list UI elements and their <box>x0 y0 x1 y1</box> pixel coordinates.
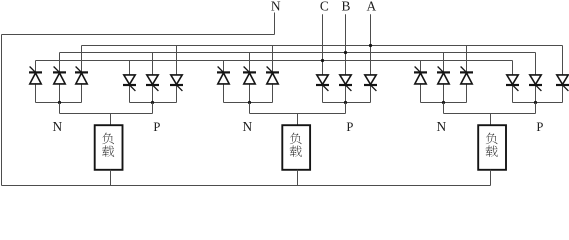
thyristor VT16 symbol <box>506 75 519 91</box>
wire load 3 junction run (N group to P group) <box>444 113 536 115</box>
junction dot group 1 output node <box>58 101 61 104</box>
wire group 2 common output <box>130 102 177 104</box>
load 1 box (负载) <box>95 125 123 170</box>
wire phase-B bus <box>60 52 536 54</box>
wire bus tap for VT13 <box>420 61 422 73</box>
thyristor VT17 (conducting down) cathode wire <box>535 85 537 103</box>
wire load 2 junction run (N group to P group) <box>250 113 346 115</box>
wire bus tap for VT8 <box>249 53 251 73</box>
wire group 1 output drop <box>59 103 61 114</box>
wire bus tap for VT9 <box>272 46 274 73</box>
wire group 4 output drop <box>345 103 347 114</box>
wire N terminal drop <box>274 13 276 35</box>
thyristor VT15 symbol <box>460 67 473 84</box>
wire group 4 common output <box>323 102 371 104</box>
wire bus tap for VT16 <box>512 61 514 75</box>
thyristor VT10 symbol <box>316 75 329 91</box>
thyristor VT3 (conducting up) anode wire <box>81 83 83 102</box>
thyristor VT8 symbol <box>243 67 256 84</box>
wire bus tap for VT15 <box>466 46 468 73</box>
wire group 5 output drop <box>443 103 445 114</box>
thyristor VT2 (conducting up) anode wire <box>59 83 61 102</box>
svg-text:N: N <box>242 119 252 134</box>
thyristor VT18 (conducting down) cathode wire <box>562 85 564 103</box>
thyristor VT1 (conducting up) anode wire <box>35 83 37 102</box>
thyristor VT6 symbol <box>170 75 183 91</box>
thyristor VT6 (conducting down) cathode wire <box>176 85 178 103</box>
thyristor VT11 symbol <box>339 75 352 91</box>
svg-text:P: P <box>153 120 160 134</box>
thyristor VT11 (conducting down) cathode wire <box>345 85 347 103</box>
load 2 text 载 <box>290 146 302 157</box>
thyristor VT10 (conducting down) cathode wire <box>322 85 324 103</box>
thyristor VT12 symbol <box>364 75 377 91</box>
wire load 2 top lead <box>297 114 299 126</box>
wire load 3 bottom lead <box>490 170 492 186</box>
svg-text:N: N <box>271 0 281 13</box>
wire bus tap for VT6 <box>176 46 178 75</box>
wire bus tap for VT14 <box>443 53 445 73</box>
thyristor VT14 (conducting up) anode wire <box>443 83 445 102</box>
wire load 1 bottom lead <box>110 170 112 186</box>
junction dot group 2 output node <box>151 101 154 104</box>
wire group 6 common output <box>513 102 563 104</box>
svg-text:B: B <box>342 0 351 13</box>
load 3 box (负载) <box>478 125 506 170</box>
svg-text:C: C <box>320 0 329 13</box>
junction dot C on phase-C bus <box>321 59 324 62</box>
thyristor VT8 (conducting up) anode wire <box>249 83 251 102</box>
wire group 3 output drop <box>249 103 251 114</box>
wire N horizontal run to left edge <box>2 34 275 36</box>
svg-text:N: N <box>52 119 62 134</box>
junction dot B on phase-B bus <box>344 51 347 54</box>
svg-text:N: N <box>436 119 446 134</box>
load 2 box (负载) <box>282 125 310 170</box>
wire load 1 junction run (N group to P group) <box>60 113 153 115</box>
thyristor VT12 (conducting down) cathode wire <box>370 85 372 103</box>
thyristor VT7 symbol <box>217 67 230 84</box>
wire phase-A bus <box>82 45 563 47</box>
thyristor VT18 symbol <box>556 75 569 91</box>
thyristor VT9 symbol <box>266 67 279 84</box>
wire group 2 output drop <box>152 103 154 114</box>
thyristor VT1 symbol <box>29 67 42 84</box>
wire N bottom return bus <box>2 185 491 187</box>
thyristor VT5 symbol <box>146 75 159 91</box>
svg-text:P: P <box>346 120 353 134</box>
thyristor VT3 symbol <box>75 67 88 84</box>
thyristor VT2 symbol <box>53 67 66 84</box>
wire bus tap for VT1 <box>35 61 37 73</box>
wire group 5 common output <box>421 102 467 104</box>
thyristor VT13 symbol <box>414 67 427 84</box>
svg-text:A: A <box>366 0 376 13</box>
load 2 text 负 <box>290 133 302 144</box>
junction dot A on phase-A bus <box>369 44 372 47</box>
load 1 text 载 <box>102 146 114 157</box>
wire bus tap for VT7 <box>223 61 225 73</box>
wire bus tap for VT18 <box>562 46 564 75</box>
wire load 1 top lead <box>110 114 112 126</box>
junction dot group 5 output node <box>442 101 445 104</box>
wire phase C feeder <box>322 14 324 75</box>
wire phase-C bus <box>36 60 513 62</box>
thyristor VT15 (conducting up) anode wire <box>466 83 468 102</box>
thyristor VT14 symbol <box>437 67 450 84</box>
wire bus tap for VT5 <box>152 53 154 75</box>
thyristor VT4 symbol <box>123 75 136 91</box>
junction dot group 3 output node <box>248 101 251 104</box>
thyristor VT17 symbol <box>529 75 542 91</box>
thyristor VT7 (conducting up) anode wire <box>223 83 225 102</box>
junction dot group 6 output node <box>534 101 537 104</box>
wire bus tap for VT2 <box>59 53 61 73</box>
wire bus tap for VT4 <box>129 61 131 75</box>
thyristor VT4 (conducting down) cathode wire <box>129 85 131 103</box>
wire load 2 bottom lead <box>297 170 299 186</box>
junction dot group 4 output node <box>344 101 347 104</box>
thyristor VT9 (conducting up) anode wire <box>272 83 274 102</box>
wire load 3 top lead <box>490 114 492 126</box>
load 1 text 负 <box>102 133 114 144</box>
thyristor VT16 (conducting down) cathode wire <box>512 85 514 103</box>
wire phase B feeder <box>345 14 347 75</box>
load 3 text 负 <box>486 133 498 144</box>
wire phase A feeder <box>370 14 372 75</box>
wire bus tap for VT3 <box>81 46 83 73</box>
wire N left-edge vertical run <box>1 35 3 186</box>
wire bus tap for VT17 <box>535 53 537 75</box>
wire group 1 common output <box>36 102 82 104</box>
thyristor VT5 (conducting down) cathode wire <box>152 85 154 103</box>
load 3 text 载 <box>485 146 497 157</box>
wire group 3 common output <box>224 102 273 104</box>
thyristor VT13 (conducting up) anode wire <box>420 83 422 102</box>
svg-text:P: P <box>536 120 543 134</box>
wire group 6 output drop <box>535 103 537 114</box>
